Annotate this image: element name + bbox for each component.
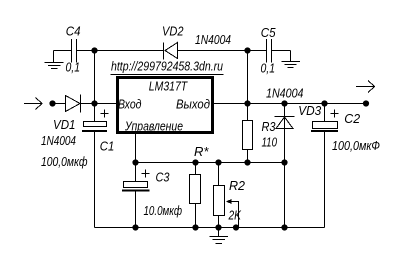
svg-text:C1: C1 <box>100 138 115 153</box>
svg-text:C3: C3 <box>156 170 171 185</box>
svg-text:100,0мкф: 100,0мкф <box>41 154 88 169</box>
svg-text:VD2: VD2 <box>162 23 184 38</box>
svg-text:VD3: VD3 <box>298 103 322 118</box>
svg-text:100,0мкФ: 100,0мкФ <box>332 138 380 153</box>
svg-text:R*: R* <box>194 144 209 159</box>
svg-text:110: 110 <box>262 135 278 150</box>
svg-text:1N4004: 1N4004 <box>195 32 231 47</box>
svg-text:0,1: 0,1 <box>261 61 276 76</box>
svg-text:1N4004: 1N4004 <box>266 85 304 100</box>
svg-text:C2: C2 <box>344 111 361 126</box>
svg-text:R3: R3 <box>262 119 277 134</box>
svg-text:C4: C4 <box>66 24 81 39</box>
svg-text:Выход: Выход <box>176 97 210 112</box>
svg-text:LM317T: LM317T <box>149 79 188 94</box>
svg-text:VD1: VD1 <box>53 117 76 132</box>
svg-text:R2: R2 <box>229 178 246 193</box>
svg-text:0,1: 0,1 <box>66 60 81 75</box>
svg-text:1N4004: 1N4004 <box>41 133 76 148</box>
svg-text:2K: 2K <box>228 208 242 223</box>
svg-text:Управление: Управление <box>124 118 183 133</box>
svg-text:Вход: Вход <box>118 97 142 112</box>
svg-text:10.0мкф: 10.0мкф <box>144 203 183 218</box>
svg-text:http://299792458.3dn.ru: http://299792458.3dn.ru <box>111 59 223 74</box>
svg-text:C5: C5 <box>261 25 276 40</box>
